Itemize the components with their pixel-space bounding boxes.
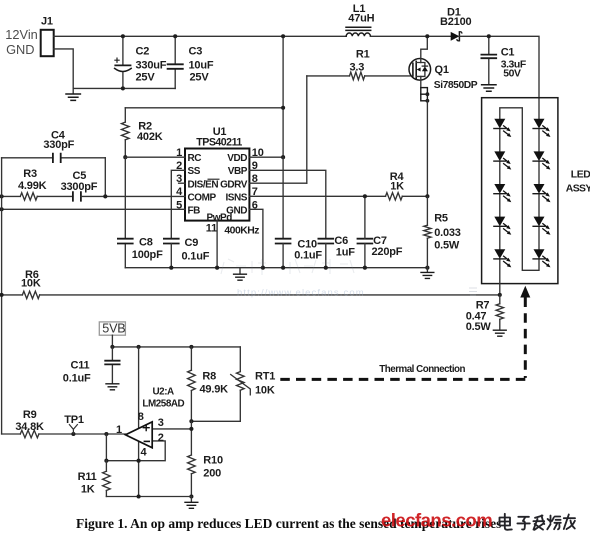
- svg-text:C3: C3: [189, 46, 203, 58]
- svg-text:DIS/EN: DIS/EN: [188, 179, 219, 190]
- junction: [104, 459, 108, 463]
- resistor R9: [2, 409, 126, 438]
- svg-text:0.5W: 0.5W: [434, 239, 460, 251]
- svg-text:50V: 50V: [503, 69, 521, 80]
- junction: [189, 494, 193, 498]
- junction: [281, 155, 285, 159]
- resistor R6: [2, 269, 500, 299]
- wire: analog ground bus: [125, 267, 427, 269]
- LED (right string #3): [533, 184, 550, 202]
- wire: ISNS line: [249, 195, 427, 197]
- svg-text:R9: R9: [23, 409, 37, 421]
- junction: [281, 34, 285, 38]
- junction: [123, 155, 127, 159]
- wire: L1 to D1 anode: [371, 35, 451, 37]
- LED (right string #1): [533, 119, 550, 137]
- svg-text:3: 3: [158, 417, 164, 429]
- wire: D1 cathode to LED assy: [459, 36, 539, 119]
- svg-text:0.1uF: 0.1uF: [63, 373, 91, 385]
- svg-text:220pF: 220pF: [372, 246, 403, 258]
- capacitor C1: [481, 36, 525, 84]
- svg-text:C6: C6: [334, 235, 348, 247]
- resistor R2: [122, 108, 163, 157]
- svg-text:34.8K: 34.8K: [15, 421, 44, 433]
- capacitor C9: [164, 237, 210, 268]
- svg-text:ASSY: ASSY: [566, 183, 590, 194]
- capacitor C2: [114, 36, 166, 88]
- svg-text:25V: 25V: [190, 72, 210, 84]
- junction: [487, 34, 491, 38]
- svg-text:330uF: 330uF: [136, 60, 167, 72]
- svg-text:C1: C1: [501, 47, 515, 59]
- svg-text:47uH: 47uH: [348, 13, 374, 25]
- wire: LED series U-link: [500, 108, 539, 270]
- junction: [189, 419, 193, 423]
- wire: R8/RT1 bottom link: [191, 420, 240, 422]
- svg-text:3.3: 3.3: [350, 61, 365, 73]
- svg-text:R7: R7: [476, 300, 490, 312]
- svg-text:R8: R8: [202, 371, 216, 383]
- wire: 5VB to rail: [111, 335, 113, 347]
- watermark chinese characters 电子发烧友: [500, 514, 576, 530]
- capacitor C3: [168, 36, 214, 88]
- svg-text:12Vin: 12Vin: [5, 27, 38, 42]
- svg-text:SS: SS: [188, 166, 201, 177]
- capacitor C6: [318, 235, 355, 268]
- junction: [0, 293, 4, 297]
- wire: feedback line to pin 2: [106, 441, 165, 461]
- svg-text:C11: C11: [71, 359, 90, 371]
- svg-text:FB: FB: [188, 206, 201, 217]
- svg-text:49.9K: 49.9K: [200, 383, 229, 395]
- svg-text:R10: R10: [203, 455, 223, 467]
- wire: 12V to VDD riser: [282, 36, 284, 157]
- svg-text:4.99K: 4.99K: [18, 180, 47, 192]
- power label 5VB: [99, 321, 125, 335]
- LED (left string #5): [494, 250, 511, 268]
- svg-text:C8: C8: [139, 236, 153, 248]
- wire: left feedback bus: [1, 158, 3, 434]
- faint watermark fragment (right): [469, 288, 477, 295]
- svg-text:3300pF: 3300pF: [61, 181, 98, 193]
- wire: GND pin to ground bus: [249, 209, 263, 267]
- LED (left string #4): [494, 217, 511, 235]
- svg-text:10uF: 10uF: [189, 60, 214, 72]
- resistor R11: [78, 461, 111, 497]
- capacitor C7: [358, 196, 403, 267]
- inductor L1: [346, 3, 375, 36]
- svg-text:ISNS: ISNS: [225, 192, 247, 203]
- svg-text:R11: R11: [78, 471, 97, 483]
- svg-text:B2100: B2100: [440, 16, 471, 28]
- junction: [425, 34, 429, 38]
- svg-text:200: 200: [203, 467, 221, 479]
- wire: C4 loop right leg: [104, 158, 106, 197]
- svg-text:U2:A: U2:A: [153, 387, 175, 398]
- svg-text:TPS40211: TPS40211: [196, 137, 242, 149]
- svg-text:0.033: 0.033: [434, 227, 461, 239]
- wire: Q1 source to R4/R5 node: [426, 101, 428, 197]
- resistor R3: [2, 168, 73, 200]
- junction: [363, 194, 367, 198]
- svg-text:J1: J1: [41, 16, 53, 28]
- junction: [173, 34, 177, 38]
- capacitor C8: [118, 236, 163, 261]
- resistor R8: [188, 347, 229, 421]
- resistor R7: [466, 295, 504, 333]
- wire: DIS/EN stub: [179, 182, 185, 184]
- svg-text:LED: LED: [571, 169, 590, 180]
- svg-text:8: 8: [138, 411, 144, 423]
- resistor R10: [188, 455, 223, 497]
- wire: GDRV stub: [249, 182, 306, 184]
- svg-text:10K: 10K: [21, 278, 41, 290]
- wire: VBP to C6: [249, 170, 325, 238]
- wire: divider to pin3 node: [190, 421, 192, 455]
- wire: SS pin to C9: [171, 170, 185, 238]
- junction: [281, 106, 285, 110]
- svg-text:LM258AD: LM258AD: [142, 399, 184, 410]
- diode D1 B2100: [440, 6, 471, 41]
- svg-text:1K: 1K: [390, 181, 404, 193]
- LED (right string #4): [533, 217, 550, 235]
- wire: output node down to feedback: [105, 434, 107, 461]
- op-amp U2:A LM258AD: [116, 387, 185, 459]
- ground (PwPd): [239, 268, 241, 274]
- svg-text:Thermal Connection: Thermal Connection: [379, 364, 465, 375]
- svg-text:1: 1: [116, 424, 122, 436]
- wire: 5VB rail: [112, 346, 240, 348]
- LED (right string #5): [533, 250, 550, 268]
- wire: 12V top rail J1 to L1: [54, 35, 346, 37]
- resistor R1: [307, 49, 413, 80]
- svg-text:1K: 1K: [81, 483, 95, 495]
- junction: [103, 194, 107, 198]
- svg-text:VDD: VDD: [227, 153, 247, 164]
- Q1 source pads: [421, 88, 430, 103]
- LED (left string #3): [494, 184, 511, 202]
- capacitor C11: [63, 347, 120, 385]
- svg-text:Si7850DP: Si7850DP: [434, 80, 478, 91]
- wire: RC/C8 leg: [124, 157, 126, 268]
- svg-text:C2: C2: [136, 46, 150, 58]
- svg-text:402K: 402K: [137, 131, 163, 143]
- resistor R4: [386, 171, 405, 200]
- IC U1 TPS40211 boost controller: [185, 126, 249, 224]
- svg-text:GND: GND: [6, 42, 34, 57]
- wire: VDD stub: [249, 156, 283, 158]
- ground (input): [72, 88, 74, 93]
- LED (right string #2): [533, 152, 550, 170]
- ground (R7): [493, 330, 506, 336]
- svg-text:R5: R5: [434, 212, 448, 224]
- svg-text:11: 11: [206, 223, 217, 235]
- wire: VDD rail to R2: [125, 107, 283, 109]
- ground (R10): [190, 497, 192, 502]
- capacitor C4: [2, 129, 106, 162]
- svg-text:Q1: Q1: [435, 64, 449, 76]
- svg-text:10K: 10K: [255, 385, 275, 397]
- svg-text:VBP: VBP: [228, 166, 248, 177]
- junction: [425, 194, 429, 198]
- label LED ASSY: [566, 169, 590, 194]
- svg-text:1uF: 1uF: [336, 246, 355, 258]
- svg-text:C9: C9: [185, 237, 199, 249]
- svg-text:0.1uF: 0.1uF: [182, 251, 210, 263]
- LED assembly box: [482, 98, 558, 284]
- wire: RC pin to R2/C8: [125, 156, 185, 158]
- wire: FB pin line: [2, 208, 185, 210]
- capacitor C10: [276, 238, 323, 267]
- svg-text:0.1uF: 0.1uF: [294, 250, 322, 262]
- junction: [104, 432, 108, 436]
- wire: LED string segments: [500, 129, 539, 250]
- junction: [121, 34, 125, 38]
- svg-text:330pF: 330pF: [43, 139, 74, 151]
- wire: op-amp supply riser: [138, 347, 140, 497]
- ground (C1): [482, 85, 496, 91]
- svg-text:5VB: 5VB: [102, 321, 125, 335]
- LED (left string #1): [494, 119, 511, 137]
- junction: [169, 266, 173, 270]
- U1 pin numbers: [176, 147, 264, 237]
- svg-text:R3: R3: [23, 168, 37, 180]
- thermal connection dashed arrow: [278, 286, 530, 380]
- LED (left string #2): [494, 152, 511, 170]
- svg-text:C5: C5: [73, 170, 87, 182]
- junction: [110, 345, 114, 349]
- transistor Q1 Si7850DP: [409, 36, 478, 91]
- junction: [189, 427, 193, 431]
- wire: PwPd pin 11 to ground bus: [216, 221, 218, 268]
- svg-text:C10: C10: [297, 238, 317, 250]
- ground (C11): [106, 384, 119, 390]
- wire: J1 GND pin to ground: [54, 49, 176, 89]
- svg-text:RC: RC: [188, 153, 202, 164]
- thermistor RT1: [231, 347, 276, 421]
- svg-text:0.5W: 0.5W: [466, 321, 492, 333]
- svg-text:http://www.elecfans.com: http://www.elecfans.com: [237, 288, 365, 299]
- svg-text:R1: R1: [356, 49, 370, 61]
- resistor R5: [424, 196, 461, 267]
- svg-text:COMP: COMP: [188, 192, 217, 203]
- wire: op-amp bottom rail: [106, 496, 191, 498]
- connector J1: [41, 16, 54, 57]
- svg-text:2: 2: [158, 432, 164, 444]
- svg-text:100pF: 100pF: [132, 249, 163, 261]
- faint watermark fragments (center): [221, 259, 354, 275]
- svg-text:TP1: TP1: [64, 414, 84, 426]
- wire: GDRV riser to R1: [306, 76, 308, 183]
- test point TP1: [64, 414, 84, 436]
- junction: [137, 494, 141, 498]
- svg-text:GDRV: GDRV: [220, 179, 248, 190]
- wire: left string exit to R7 node: [499, 259, 501, 295]
- svg-text:25V: 25V: [136, 72, 156, 84]
- wire: COMP pin line: [105, 195, 185, 197]
- wire: pin 3 line: [152, 428, 191, 430]
- svg-text:400KHz: 400KHz: [224, 225, 259, 236]
- svg-text:elecfans.com: elecfans.com: [381, 510, 492, 531]
- capacitor C5: [61, 170, 106, 201]
- svg-text:RT1: RT1: [255, 371, 275, 383]
- ground (R5): [426, 268, 428, 272]
- wire: VDD riser to C10: [282, 157, 284, 239]
